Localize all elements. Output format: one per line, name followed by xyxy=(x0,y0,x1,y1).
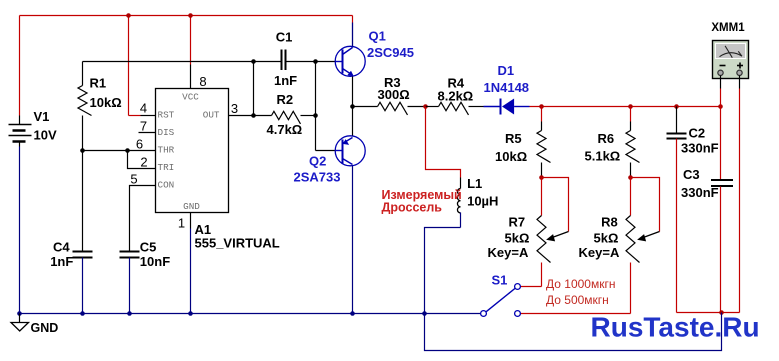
svg-text:Q1: Q1 xyxy=(369,29,386,44)
svg-text:TRI: TRI xyxy=(158,162,175,173)
svg-text:R6: R6 xyxy=(598,131,615,146)
svg-text:CON: CON xyxy=(158,180,175,191)
svg-text:2SC945: 2SC945 xyxy=(367,45,414,60)
svg-text:10nF: 10nF xyxy=(140,254,170,269)
svg-text:DIS: DIS xyxy=(158,127,175,138)
svg-text:C5: C5 xyxy=(140,240,157,255)
svg-text:R7: R7 xyxy=(509,215,526,230)
svg-text:Key=A: Key=A xyxy=(488,245,529,260)
svg-text:S1: S1 xyxy=(492,273,508,288)
svg-text:D1: D1 xyxy=(498,63,515,78)
svg-text:R8: R8 xyxy=(601,215,618,230)
svg-text:3: 3 xyxy=(231,101,238,116)
svg-text:4: 4 xyxy=(140,101,147,116)
svg-text:Дроссель: Дроссель xyxy=(382,200,443,214)
svg-text:L1: L1 xyxy=(467,176,482,191)
svg-text:10V: 10V xyxy=(34,128,57,143)
svg-text:10µH: 10µH xyxy=(467,194,498,209)
svg-text:10kΩ: 10kΩ xyxy=(90,95,122,110)
svg-text:V1: V1 xyxy=(34,109,50,124)
svg-text:RST: RST xyxy=(158,110,175,121)
svg-text:330nF: 330nF xyxy=(681,141,719,156)
svg-text:R1: R1 xyxy=(90,76,107,91)
svg-text:До 1000мкгн: До 1000мкгн xyxy=(546,277,615,291)
svg-text:5: 5 xyxy=(130,172,137,187)
svg-text:THR: THR xyxy=(158,145,175,156)
svg-text:555_VIRTUAL: 555_VIRTUAL xyxy=(195,236,280,251)
svg-text:R5: R5 xyxy=(505,131,522,146)
svg-text:5.1kΩ: 5.1kΩ xyxy=(585,149,621,164)
svg-text:R2: R2 xyxy=(277,92,294,107)
svg-text:6: 6 xyxy=(136,137,143,152)
svg-text:2SA733: 2SA733 xyxy=(294,170,341,185)
svg-text:1N4148: 1N4148 xyxy=(484,80,530,95)
svg-text:5kΩ: 5kΩ xyxy=(594,231,619,246)
svg-text:C3: C3 xyxy=(683,167,700,182)
svg-text:8.2kΩ: 8.2kΩ xyxy=(438,89,474,104)
svg-text:10kΩ: 10kΩ xyxy=(495,149,527,164)
svg-text:300Ω: 300Ω xyxy=(378,87,410,102)
svg-text:VCC: VCC xyxy=(182,92,199,103)
svg-text:XMM1: XMM1 xyxy=(711,22,745,34)
svg-text:5kΩ: 5kΩ xyxy=(505,231,530,246)
svg-text:C1: C1 xyxy=(276,30,293,45)
svg-text:OUT: OUT xyxy=(203,110,220,121)
svg-text:1: 1 xyxy=(178,216,185,231)
svg-text:4.7kΩ: 4.7kΩ xyxy=(267,122,303,137)
svg-text:Key=A: Key=A xyxy=(579,245,620,260)
svg-text:C2: C2 xyxy=(689,126,706,141)
svg-text:До 500мкгн: До 500мкгн xyxy=(546,293,609,307)
svg-text:1nF: 1nF xyxy=(50,254,73,269)
svg-text:330nF: 330nF xyxy=(681,185,719,200)
svg-text:C4: C4 xyxy=(53,240,70,255)
svg-text:2: 2 xyxy=(140,155,147,170)
svg-text:GND: GND xyxy=(183,201,200,212)
svg-text:7: 7 xyxy=(140,119,147,134)
svg-text:1nF: 1nF xyxy=(274,73,297,88)
svg-text:RusTaste.Ru: RusTaste.Ru xyxy=(591,312,760,343)
svg-text:Q2: Q2 xyxy=(309,154,326,169)
svg-text:GND: GND xyxy=(31,321,59,335)
svg-text:8: 8 xyxy=(199,74,206,89)
